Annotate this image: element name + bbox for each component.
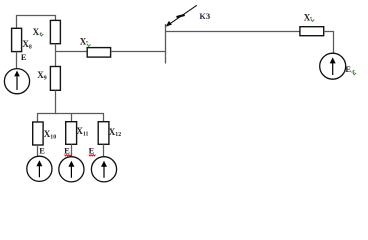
- label Ec subscript (green artifact): [353, 73, 356, 75]
- resistor X6 (horizontal): [87, 48, 110, 58]
- wire drop to X10: [37, 113, 39, 122]
- resistor X11: [66, 122, 77, 145]
- resistor X4 (middle top): [50, 20, 60, 43]
- svg-text:E: E: [39, 146, 45, 156]
- source E4: [91, 157, 116, 182]
- label X5 subscript (green artifact): [310, 17, 312, 19]
- label X4 subscript (green artifact): [40, 32, 42, 34]
- resistor X9 (middle lower): [50, 67, 60, 91]
- wire X12 to source E4: [103, 144, 105, 157]
- wire X9 to bottom bus: [55, 90, 57, 114]
- wire X10 to source E2: [37, 145, 39, 156]
- wire top loop left: [17, 16, 56, 29]
- svg-text:X: X: [304, 12, 311, 22]
- fault arrow K3: [166, 5, 197, 26]
- wire X6 to fault bus: [111, 51, 166, 53]
- wire drop to X11: [71, 114, 73, 122]
- wire X4 to junction to X9: [55, 44, 57, 67]
- svg-text:E: E: [21, 52, 27, 62]
- wire drop to X12: [103, 114, 105, 122]
- svg-text:E: E: [64, 146, 70, 156]
- wire junction to X6: [56, 51, 88, 53]
- bottom bus: [37, 113, 104, 115]
- resistor X8: [12, 28, 22, 51]
- svg-text:E: E: [89, 146, 95, 156]
- fault bus node K3 (vertical): [165, 24, 167, 64]
- svg-text:КЗ: КЗ: [199, 11, 210, 21]
- resistor X10: [33, 122, 43, 145]
- E4 red wavy underline: [89, 155, 96, 156]
- wire X5 to source Ec: [324, 32, 334, 54]
- label X6 subscript (green artifact): [86, 41, 88, 43]
- source Ec: [320, 53, 346, 79]
- wire X11 to source E3: [71, 144, 73, 157]
- source E3: [59, 157, 84, 182]
- wire fault bus to X5: [166, 31, 300, 33]
- wire X8 to source E1: [16, 52, 18, 69]
- svg-text:X: X: [80, 36, 87, 46]
- source E2: [27, 156, 52, 181]
- resistor X5 (horizontal): [300, 27, 324, 36]
- source E1 (circle with arrow): [4, 69, 29, 94]
- E3 red wavy underline: [65, 155, 72, 156]
- resistor X12: [98, 122, 109, 145]
- svg-text:X: X: [33, 27, 40, 37]
